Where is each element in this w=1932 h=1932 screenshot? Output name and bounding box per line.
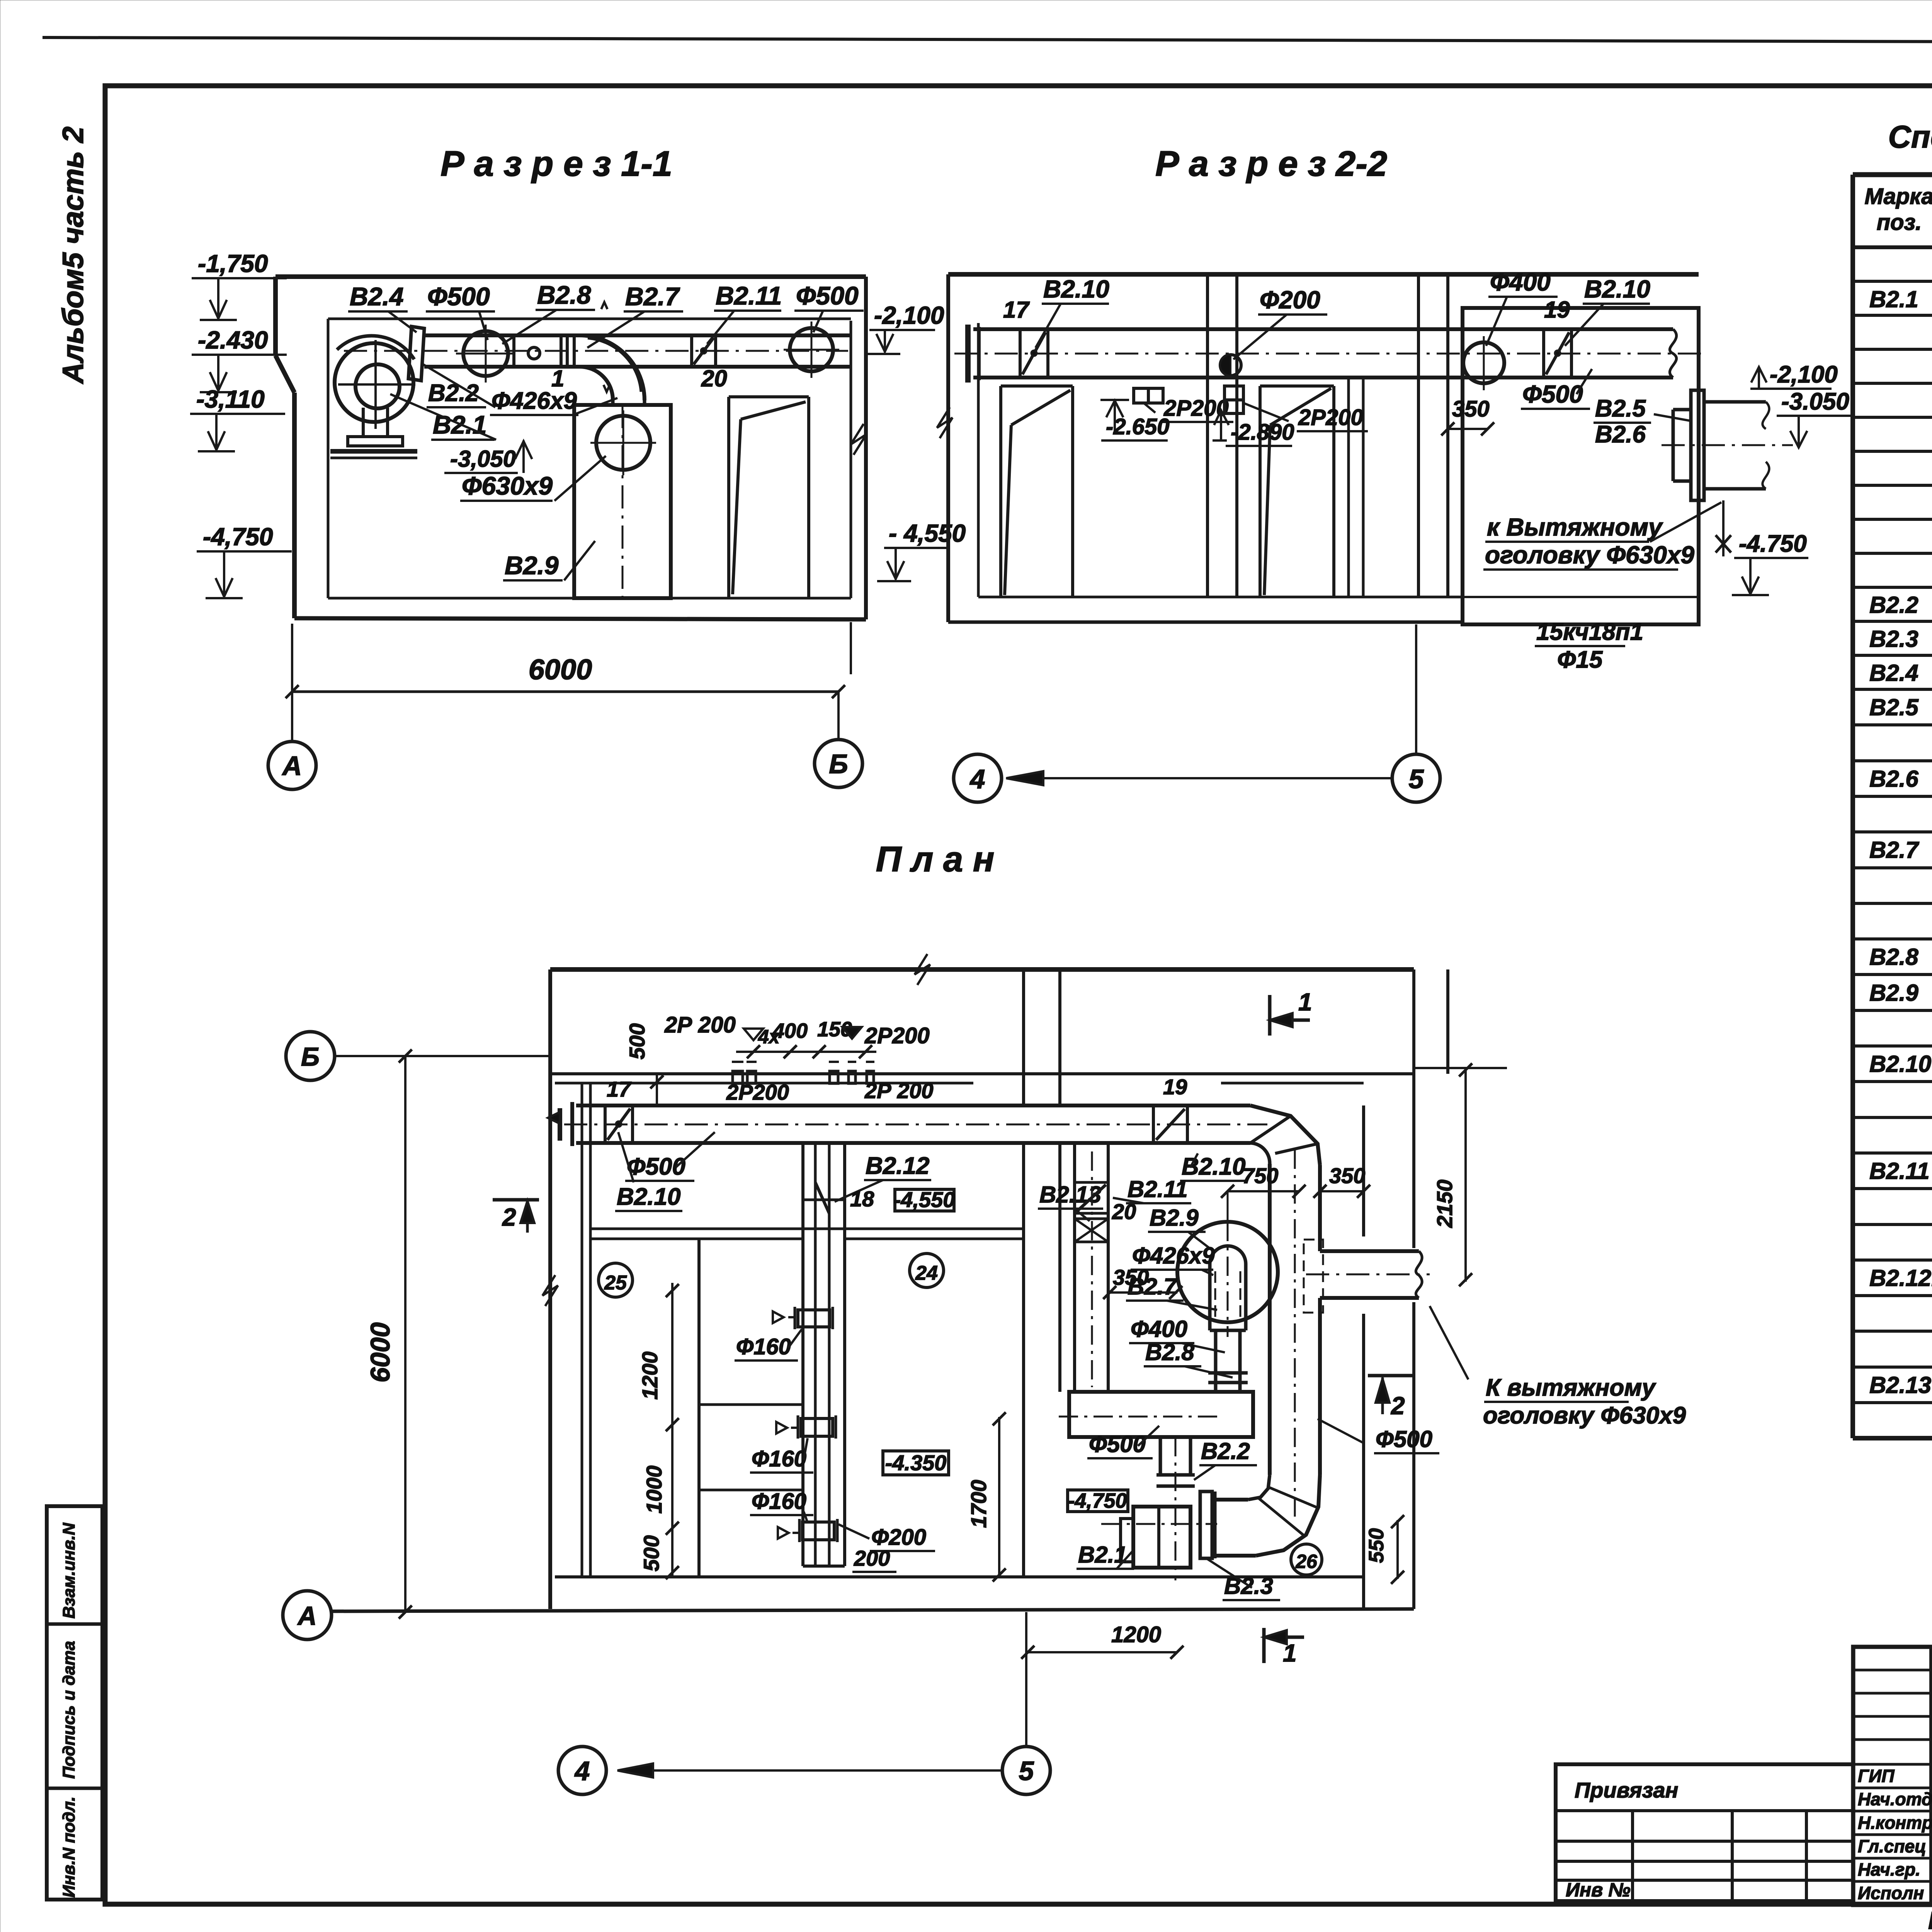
plan -4.350 box (883, 1451, 949, 1475)
svg-text:Ф400: Ф400 (1490, 268, 1551, 296)
svg-text:-4.350: -4.350 (885, 1451, 947, 1475)
riser boxes 2P200 (1134, 388, 1163, 403)
plan exhaust pipe right (1320, 1249, 1419, 1253)
plan Ф160 stub 1 (798, 1310, 830, 1327)
svg-text:-2,100: -2,100 (874, 301, 944, 329)
svg-text:24: 24 (915, 1262, 938, 1284)
circle Ф200 (1220, 355, 1241, 376)
plan 6000 dim (404, 1056, 406, 1612)
svg-text:Взам.инв.N: Взам.инв.N (60, 1522, 78, 1619)
level -2.890 (1213, 439, 1227, 442)
plan damper 17 (604, 1105, 607, 1143)
svg-text:В2.8: В2.8 (1145, 1339, 1194, 1365)
svg-text:-3,110: -3,110 (196, 385, 265, 413)
svg-text:В2.7: В2.7 (625, 282, 680, 311)
duct band 2-2 (973, 327, 1673, 331)
svg-text:Ф160: Ф160 (752, 1489, 806, 1514)
plan 1700 dim (998, 1417, 1000, 1577)
plan 2150 dim (1464, 1068, 1467, 1282)
svg-text:В2.6: В2.6 (1595, 421, 1646, 448)
svg-text:Ф200: Ф200 (1260, 286, 1320, 314)
door 1 section 2-2 (999, 386, 1002, 597)
svg-text:Ф15: Ф15 (1557, 646, 1603, 673)
svg-text:6000: 6000 (529, 653, 592, 685)
svg-text:В2.11: В2.11 (1869, 1158, 1930, 1184)
svg-text:1: 1 (1283, 1639, 1297, 1667)
svg-text:20: 20 (701, 366, 727, 391)
svg-text:Ф160: Ф160 (752, 1446, 806, 1471)
section 1-1 room outline (276, 274, 866, 279)
svg-text:Р а з р е з 2-2: Р а з р е з 2-2 (1155, 144, 1387, 184)
damper 19 duct 2-2 (1542, 329, 1545, 378)
svg-text:Н.контр: Н.контр (1858, 1813, 1932, 1833)
svg-text:А: А (282, 751, 302, 781)
svg-text:Подпись и дата: Подпись и дата (60, 1641, 78, 1779)
svg-text:17: 17 (607, 1077, 632, 1101)
svg-text:оголовку Ф630х9: оголовку Ф630х9 (1483, 1402, 1686, 1429)
chamber circle Ф630x9 (596, 416, 650, 470)
svg-text:В2.6: В2.6 (1869, 766, 1918, 792)
section 2-2 room outline (948, 272, 1699, 277)
svg-text:Альбом5 часть 2: Альбом5 часть 2 (57, 126, 90, 384)
svg-text:Нач.отд: Нач.отд (1858, 1789, 1932, 1809)
plan top wall (550, 967, 1414, 972)
elbow down to chamber (580, 335, 645, 400)
plan duct elbow top right (1250, 1105, 1320, 1165)
duct circle Ф500 right (790, 328, 833, 371)
plan section flag 2 left (493, 1198, 539, 1202)
plan riser shaft (801, 1143, 804, 1566)
svg-text:Нач.гр.: Нач.гр. (1858, 1859, 1920, 1879)
title block privyazan box (1556, 1764, 1853, 1901)
plan right duct leg (1268, 1164, 1272, 1475)
fan B2.1 section (335, 343, 413, 422)
plan fan inlet duct (1159, 1437, 1162, 1475)
svg-text:200: 200 (854, 1546, 890, 1570)
svg-text:-1,750: -1,750 (198, 250, 268, 277)
svg-text:19: 19 (1544, 297, 1570, 323)
svg-text:350: 350 (1113, 1265, 1149, 1289)
plan level -4,550 box (895, 1189, 954, 1211)
svg-text:П л а н: П л а н (876, 840, 995, 879)
svg-text:В2.10: В2.10 (1584, 275, 1650, 303)
svg-text:Марка: Марка (1864, 184, 1932, 209)
plan room circle 24 (910, 1253, 944, 1287)
svg-text:-4,550: -4,550 (894, 1187, 955, 1212)
svg-text:19: 19 (1163, 1075, 1187, 1099)
plan 550 dim (1396, 1520, 1399, 1579)
svg-text:В2.4: В2.4 (350, 282, 403, 311)
svg-text:Ф500: Ф500 (796, 281, 859, 310)
circle Ф400 (1463, 342, 1504, 383)
svg-text:2150: 2150 (1432, 1180, 1457, 1228)
svg-text:1200: 1200 (1111, 1622, 1161, 1647)
plan right wall (1362, 1105, 1365, 1236)
svg-text:550: 550 (1365, 1528, 1388, 1563)
svg-text:Р а з р е з 1-1: Р а з р е з 1-1 (440, 144, 672, 184)
plan Ф160 stub 3 (803, 1522, 834, 1540)
plan left wall (548, 969, 552, 1609)
plan chamber circle B2.9 (1177, 1222, 1278, 1322)
plan duct run (576, 1104, 1250, 1107)
outer frame top line (43, 37, 1932, 43)
svg-text:17: 17 (1003, 297, 1030, 323)
svg-text:Гл.спец: Гл.спец (1858, 1836, 1926, 1856)
svg-text:В2.8: В2.8 (1869, 944, 1918, 970)
svg-text:В2.9: В2.9 (505, 551, 559, 580)
svg-text:В2.13: В2.13 (1869, 1372, 1931, 1398)
duct 1-1 (424, 333, 851, 337)
svg-text:В2.12: В2.12 (866, 1153, 929, 1179)
svg-text:Привязан: Привязан (1575, 1778, 1678, 1802)
plan circle 26 (1291, 1544, 1322, 1575)
svg-text:-2,100: -2,100 (1770, 361, 1838, 388)
svg-text:К вытяжному: К вытяжному (1486, 1374, 1656, 1401)
svg-text:-4.750: -4.750 (1739, 531, 1807, 557)
svg-text:500: 500 (639, 1535, 663, 1571)
svg-text:В2.10: В2.10 (1869, 1051, 1931, 1077)
damper B2.11 in duct (690, 335, 693, 367)
svg-text:2Р200: 2Р200 (726, 1080, 789, 1104)
svg-text:к Вытяжному: к Вытяжному (1487, 513, 1663, 541)
plan arrow 5 to 4 (617, 1769, 1002, 1772)
svg-text:оголовку Ф630х9: оголовку Ф630х9 (1485, 541, 1694, 569)
svg-text:400: 400 (772, 1019, 808, 1043)
level -2.650 (1100, 399, 1129, 401)
grid circle Б (815, 740, 862, 787)
plan grid circle Б (286, 1032, 335, 1080)
svg-text:В2.5: В2.5 (1869, 694, 1919, 720)
arrow 5 to 4 (1012, 777, 1392, 779)
svg-text:-3.050: -3.050 (1781, 388, 1849, 415)
plan center wall (1022, 969, 1025, 1105)
svg-text:Ф160: Ф160 (736, 1334, 791, 1359)
svg-text:25: 25 (604, 1272, 627, 1294)
svg-text:В2.1: В2.1 (1869, 286, 1918, 312)
svg-text:В2.2: В2.2 (1201, 1438, 1250, 1464)
flex insert B2.2 (408, 327, 424, 381)
svg-text:В2.3: В2.3 (1869, 626, 1918, 652)
svg-text:-4,750: -4,750 (1068, 1489, 1127, 1512)
plan fan B2.1 (1133, 1507, 1190, 1568)
plan bottom wall (555, 1575, 1364, 1578)
svg-text:Ф500: Ф500 (1089, 1431, 1146, 1457)
title block signers table (1853, 1647, 1932, 1905)
circle 4 (954, 754, 1002, 802)
svg-text:В2.4: В2.4 (1869, 660, 1918, 686)
svg-text:В2.12.: В2.12. (1869, 1265, 1932, 1291)
left stamp strip (47, 1506, 102, 1900)
section 1-1 inner walls (328, 318, 851, 320)
plan circle 4 (558, 1747, 606, 1794)
svg-text:В2.5: В2.5 (1595, 395, 1646, 422)
svg-text:2Р 200: 2Р 200 (664, 1012, 736, 1037)
svg-text:Б: Б (301, 1042, 320, 1071)
svg-text:В2.10: В2.10 (1043, 275, 1109, 303)
right chamber box (1463, 308, 1699, 624)
svg-text:Инв.N подл.: Инв.N подл. (60, 1796, 78, 1898)
expansion chamber B2.9 (574, 405, 671, 598)
plan room circle 25 (599, 1263, 633, 1297)
svg-text:Ф630х9: Ф630х9 (462, 471, 553, 500)
plan bottom elbow (1256, 1475, 1320, 1556)
svg-text:5: 5 (1409, 764, 1424, 794)
svg-text:Ф500: Ф500 (427, 282, 490, 311)
damper 17 duct 2-2 (1019, 329, 1022, 378)
svg-text:В2.9: В2.9 (1150, 1205, 1199, 1231)
walls crossing 2-2 (1206, 274, 1209, 597)
grid circle A (268, 742, 316, 789)
svg-text:Б: Б (829, 749, 848, 779)
svg-text:500: 500 (625, 1023, 649, 1059)
valve B2.7 flanges (512, 335, 515, 367)
plan room separations (590, 1228, 803, 1230)
svg-text:1000: 1000 (642, 1466, 666, 1514)
svg-text:Ф400: Ф400 (1131, 1316, 1187, 1342)
svg-text:В2.9: В2.9 (1869, 980, 1918, 1006)
svg-text:Исполн: Исполн (1858, 1883, 1924, 1903)
svg-text:5: 5 (1019, 1756, 1034, 1786)
small hole circle (528, 347, 540, 359)
spec table row lines (1853, 280, 1932, 283)
dashed equipment outline (1304, 1240, 1323, 1313)
plan section flag 2 right (1368, 1374, 1414, 1378)
plan section flag 1 top (1268, 995, 1272, 1036)
svg-text:-3,050: -3,050 (450, 446, 516, 472)
svg-text:-2.430: -2.430 (198, 326, 268, 354)
svg-text:750: 750 (1242, 1163, 1278, 1188)
svg-text:-4,750: -4,750 (203, 523, 273, 551)
svg-text:В2.10: В2.10 (617, 1184, 680, 1210)
svg-text:1: 1 (1298, 988, 1312, 1016)
plan fan room chamber rect (1069, 1392, 1253, 1437)
svg-text:4: 4 (574, 1756, 590, 1786)
svg-text:-2.890: -2.890 (1231, 420, 1294, 445)
svg-text:350: 350 (1329, 1163, 1365, 1188)
svg-text:2Р 200: 2Р 200 (864, 1078, 934, 1103)
svg-text:2: 2 (1391, 1392, 1405, 1420)
plan shaft damper B2.12 (815, 1182, 829, 1213)
svg-text:А: А (297, 1601, 316, 1631)
svg-text:В2.7: В2.7 (1869, 837, 1919, 863)
plan Ф160 stub 2 (801, 1418, 833, 1436)
svg-text:Спецификация вентиляционных: Спецификация вентиляционных установок (1888, 119, 1932, 155)
svg-text:Ф500: Ф500 (1522, 380, 1583, 408)
spec table frame (1853, 172, 1932, 177)
svg-text:В2.11: В2.11 (716, 281, 782, 310)
svg-text:В2.8: В2.8 (537, 281, 591, 309)
svg-text:поз.: поз. (1877, 210, 1922, 235)
svg-text:2Р200: 2Р200 (864, 1023, 930, 1048)
svg-text:2Р200: 2Р200 (1298, 405, 1363, 430)
svg-text:Ф426х9: Ф426х9 (492, 388, 577, 414)
svg-text:4: 4 (969, 764, 985, 794)
svg-text:-2.650: -2.650 (1106, 414, 1169, 439)
plan circle 5 (1002, 1747, 1050, 1794)
svg-text:1700: 1700 (966, 1480, 991, 1528)
circle 5 (1392, 754, 1440, 802)
plan section flag 1 bottom (1262, 1628, 1266, 1663)
svg-text:Капировал: ФЦ-: Капировал: ФЦ- (1928, 1906, 1932, 1932)
svg-text:1200: 1200 (638, 1352, 662, 1400)
svg-text:26: 26 (1295, 1551, 1318, 1572)
plan left dim chain (671, 1283, 673, 1577)
svg-text:Ф426х9: Ф426х9 (1132, 1243, 1215, 1269)
svg-text:Ф500: Ф500 (1376, 1426, 1432, 1452)
plan left shaft near wall (1073, 1143, 1076, 1392)
svg-text:В2.2: В2.2 (1869, 592, 1918, 618)
plan flange B2.3 (1200, 1492, 1212, 1558)
svg-text:18: 18 (850, 1187, 874, 1211)
plan grid circle А (283, 1591, 332, 1639)
door shape right (727, 397, 730, 598)
svg-text:350: 350 (1452, 396, 1490, 422)
svg-text:15кч18п1: 15кч18п1 (1536, 619, 1643, 645)
plan damper 19 (1152, 1105, 1155, 1143)
svg-text:2: 2 (502, 1203, 516, 1231)
svg-text:ГИП: ГИП (1858, 1766, 1895, 1786)
duct circle Ф500 (463, 331, 508, 376)
svg-text:В2.11: В2.11 (1128, 1176, 1188, 1202)
door 2 section 2-2 (1259, 386, 1262, 597)
svg-text:6000: 6000 (365, 1322, 395, 1383)
svg-text:Инв №: Инв № (1566, 1879, 1631, 1901)
svg-text:- 4,550: - 4,550 (889, 519, 966, 547)
